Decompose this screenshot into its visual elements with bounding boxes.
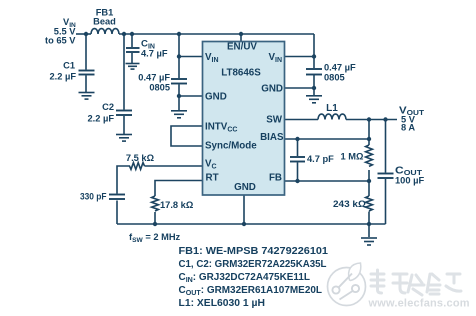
svg-text:L1: L1 — [326, 103, 338, 114]
svg-text:L1: XEL6030 1 µH: L1: XEL6030 1 µH — [179, 297, 266, 309]
svg-text:EN/UV: EN/UV — [227, 42, 257, 53]
svg-text:SW: SW — [266, 115, 283, 126]
svg-text:RT: RT — [206, 173, 219, 184]
svg-text:GND: GND — [205, 92, 227, 103]
svg-text:C1: C1 — [63, 61, 75, 71]
svg-text:C2: C2 — [102, 102, 114, 112]
svg-text:CIN: GRJ32DC72A475KE11L: CIN: GRJ32DC72A475KE11L — [179, 271, 311, 284]
svg-text:FB1: WE-MPSB 74279226101: FB1: WE-MPSB 74279226101 — [179, 245, 329, 257]
svg-text:0.47 µF: 0.47 µF — [324, 63, 356, 73]
svg-text:www.elecfans.com: www.elecfans.com — [368, 298, 470, 310]
svg-text:7.5 kΩ: 7.5 kΩ — [126, 153, 155, 163]
svg-text:2.2 µF: 2.2 µF — [49, 72, 76, 82]
svg-text:0805: 0805 — [149, 83, 170, 93]
svg-text:0.47 µF: 0.47 µF — [138, 73, 170, 83]
svg-text:243 kΩ: 243 kΩ — [333, 199, 367, 209]
svg-text:GND: GND — [261, 84, 283, 95]
svg-text:4.7 µF: 4.7 µF — [141, 49, 168, 59]
svg-text:to 65 V: to 65 V — [45, 36, 76, 46]
svg-text:fSW = 2 MHz: fSW = 2 MHz — [129, 232, 181, 244]
svg-text:100 µF: 100 µF — [395, 176, 424, 186]
svg-text:C1, C2: GRM32ER72A225KA35L: C1, C2: GRM32ER72A225KA35L — [179, 258, 328, 270]
svg-text:Sync/Mode: Sync/Mode — [205, 141, 257, 152]
svg-text:17.8 kΩ: 17.8 kΩ — [160, 200, 194, 210]
svg-text:4.7 pF: 4.7 pF — [307, 154, 334, 164]
svg-text:330 pF: 330 pF — [80, 192, 107, 202]
svg-text:FB: FB — [269, 173, 282, 184]
svg-text:0805: 0805 — [324, 73, 345, 83]
svg-text:GND: GND — [234, 182, 256, 193]
svg-text:8 A: 8 A — [401, 123, 415, 133]
svg-text:Bead: Bead — [93, 17, 116, 27]
svg-text:COUT: GRM32ER61A107ME20L: COUT: GRM32ER61A107ME20L — [179, 284, 323, 297]
svg-text:BIAS: BIAS — [260, 132, 284, 143]
svg-text:1 MΩ: 1 MΩ — [341, 152, 364, 162]
svg-text:LT8646S: LT8646S — [221, 68, 261, 79]
svg-text:2.2 µF: 2.2 µF — [87, 114, 114, 124]
